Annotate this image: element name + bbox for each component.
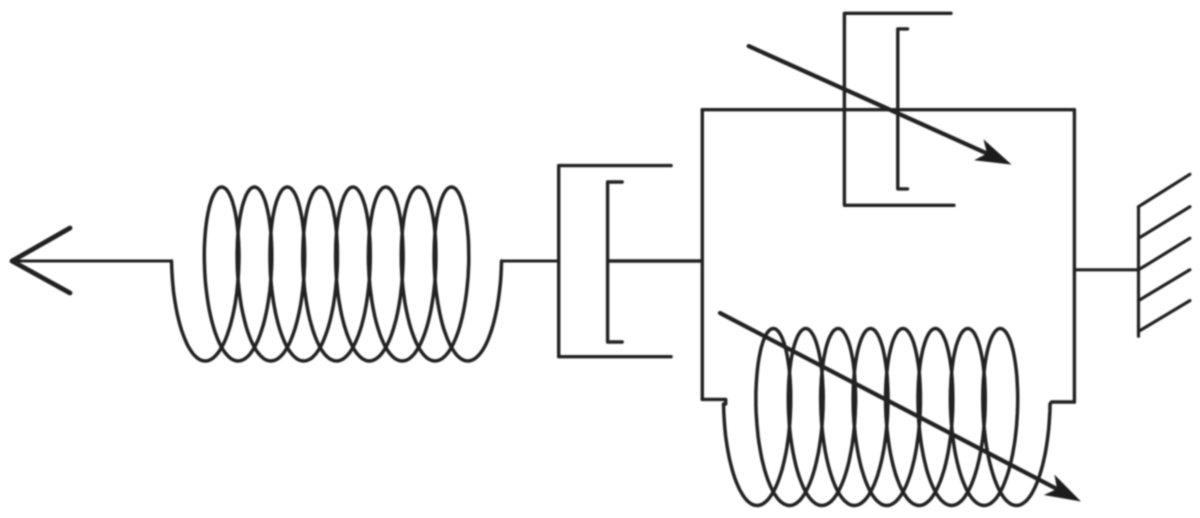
- parallel frame left edge (node A): [701, 110, 704, 400]
- left force arrow shaft: [16, 259, 172, 262]
- spring K1 (series spring): [172, 187, 502, 361]
- variability arrow shaft through damper C2: [749, 46, 986, 153]
- wall (fixed support) vertical: [1137, 207, 1140, 337]
- variability arrow head (damper C2): [974, 139, 1012, 164]
- dashpot C1 cylinder: [559, 166, 671, 357]
- frame bottom-left step to spring K2: [702, 399, 725, 404]
- wall hatch line 4: [1139, 270, 1190, 301]
- wire node B to wall: [1074, 268, 1138, 271]
- variable damper C2 cylinder: [844, 13, 954, 205]
- variability arrow shaft through spring K2: [720, 313, 1055, 488]
- frame bottom-right step from spring K2: [1050, 402, 1074, 404]
- spring K2 (variable parallel spring): [724, 329, 1051, 506]
- parallel frame right edge (node B): [1073, 110, 1076, 402]
- dashpot C1 piston: [608, 182, 623, 342]
- left force arrow open head: [12, 228, 70, 293]
- wall hatch line 1: [1139, 174, 1190, 206]
- parallel frame top edge / damper C2 rod: [702, 108, 1074, 111]
- variability arrow head (spring K2): [1044, 475, 1081, 502]
- wall hatch line 5: [1139, 301, 1190, 332]
- dashpot C1 piston rod to node A: [608, 259, 703, 262]
- variable damper C2 piston: [898, 29, 908, 189]
- wire spring K1 to dashpot C1: [502, 259, 559, 262]
- wall hatch line 3: [1139, 238, 1190, 269]
- wall hatch line 2: [1139, 207, 1190, 239]
